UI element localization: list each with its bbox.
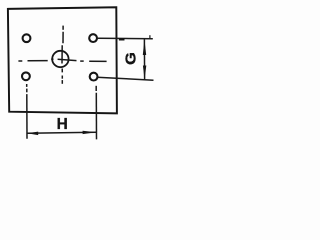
svg-text:G: G: [123, 52, 139, 65]
svg-text:H: H: [57, 116, 68, 133]
